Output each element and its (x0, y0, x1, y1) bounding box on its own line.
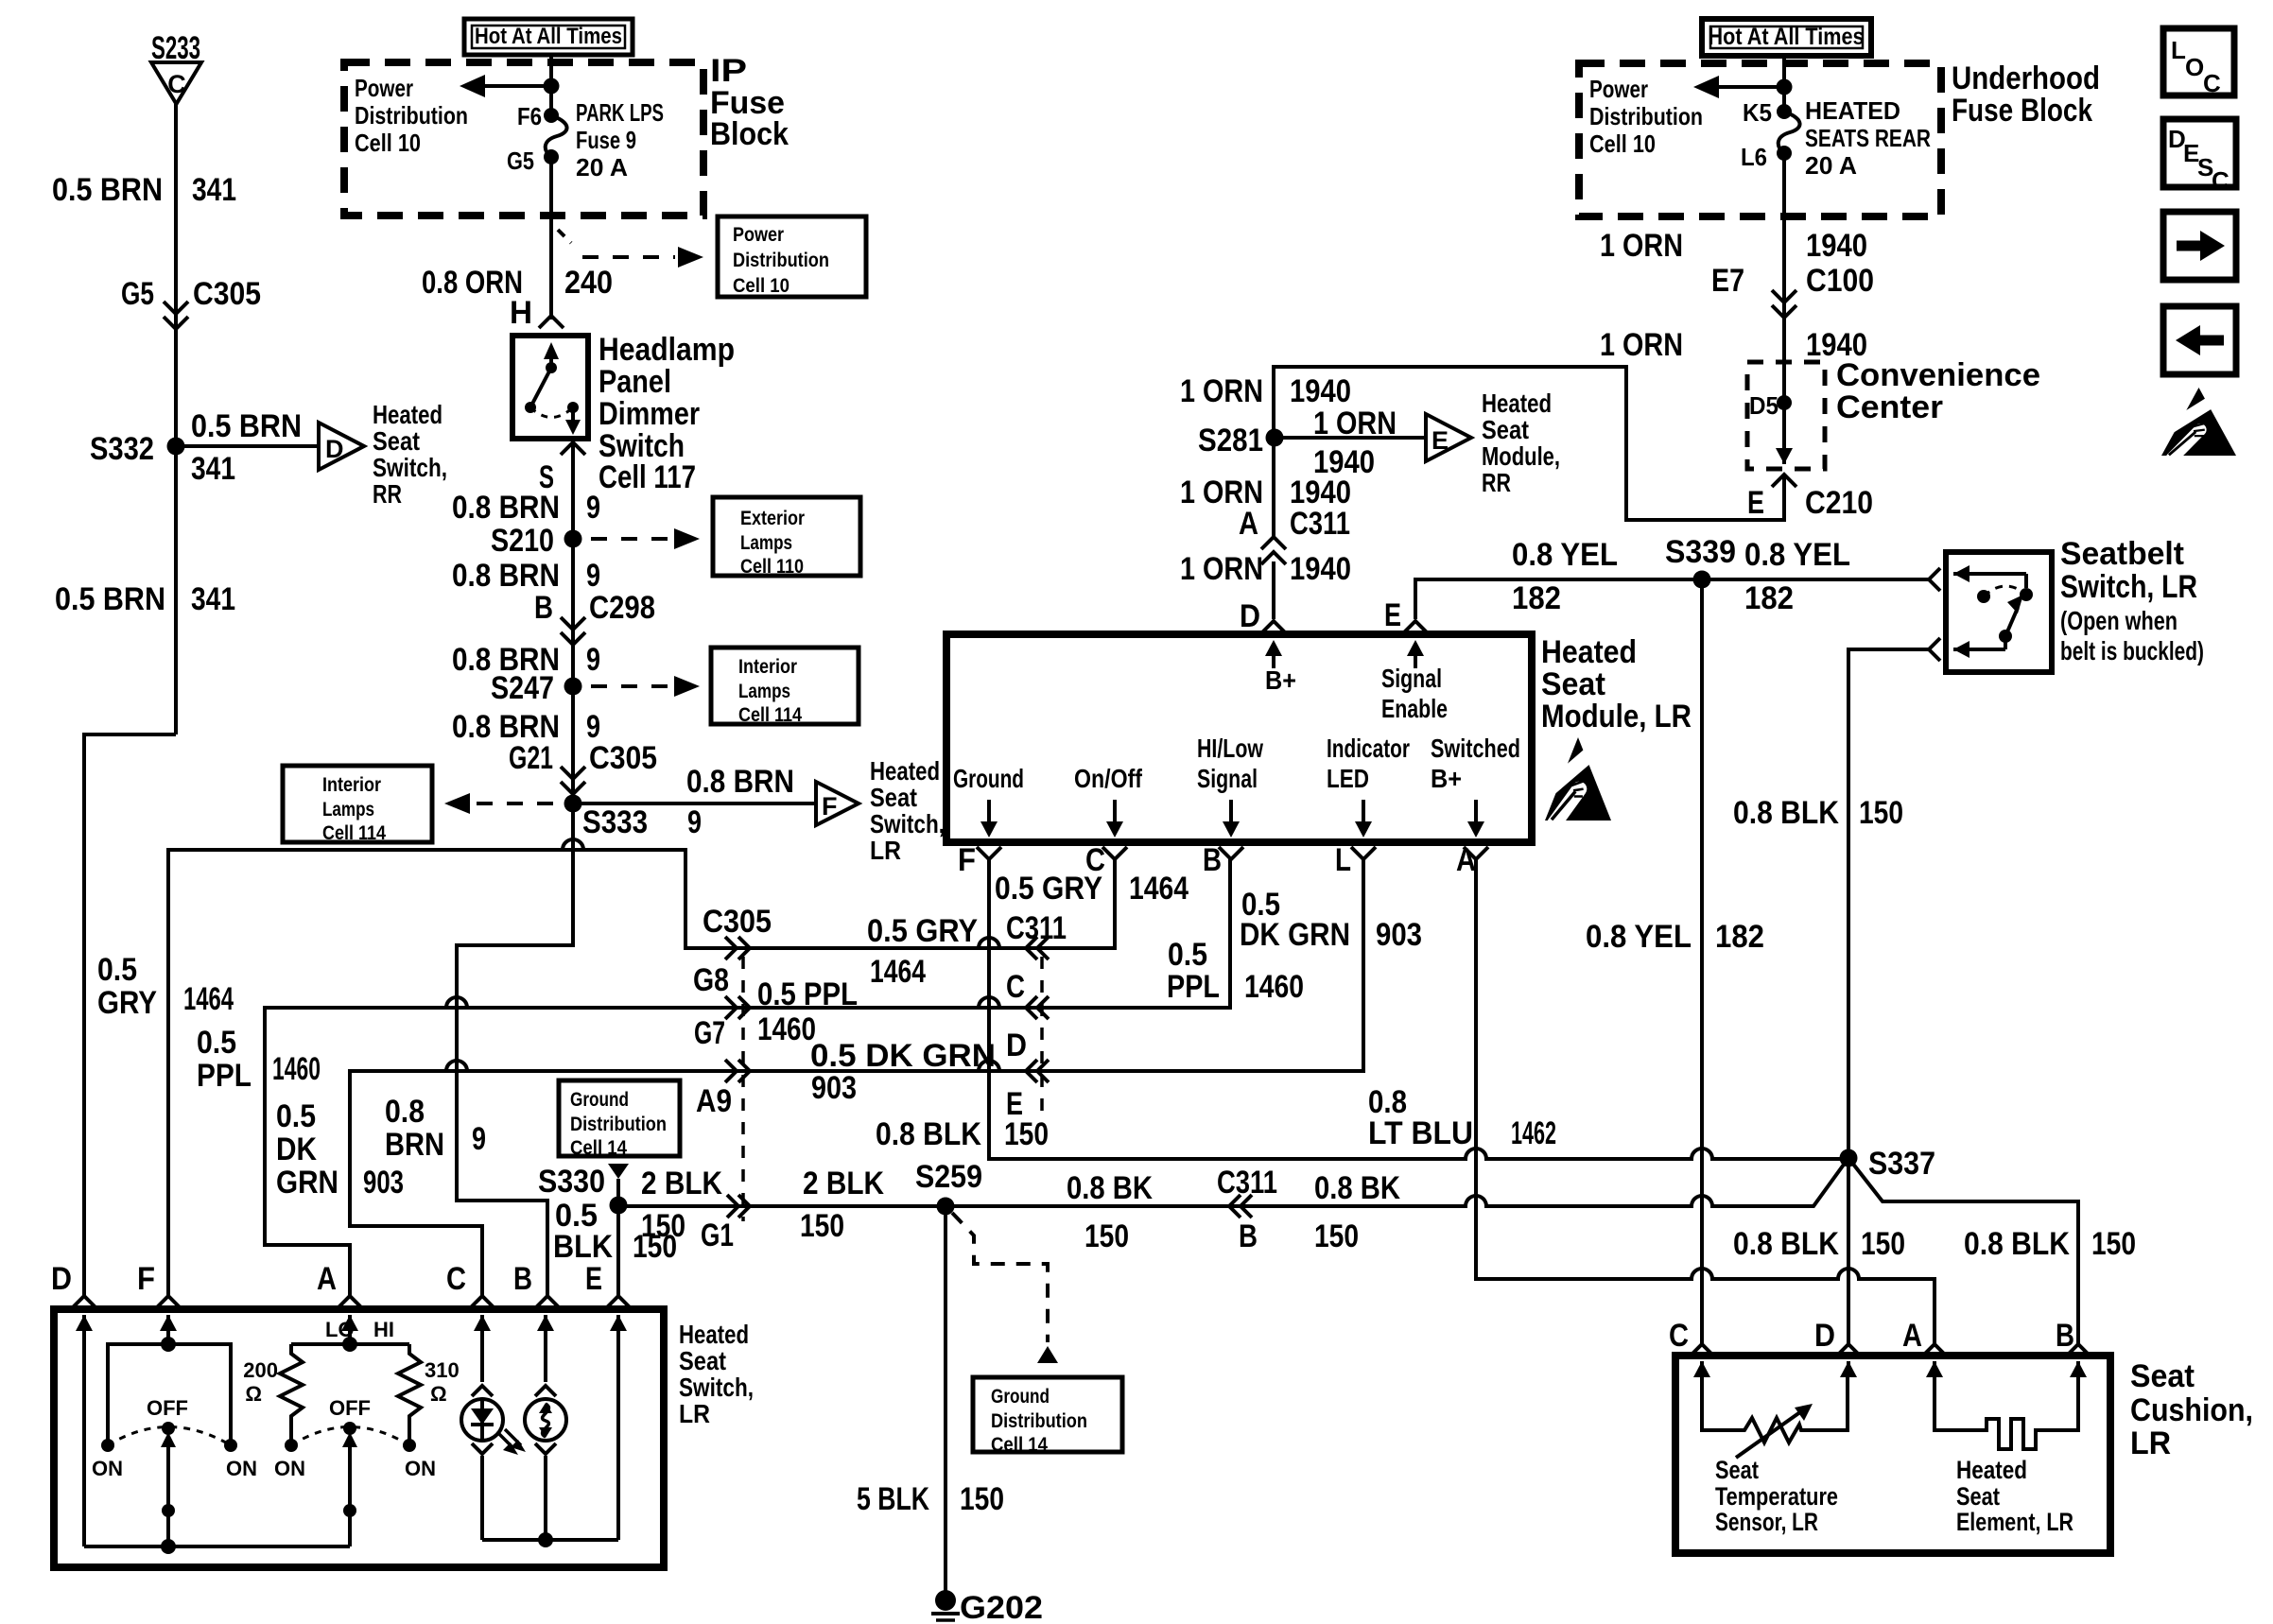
wire 0.5 BLK 150 S330 to switch pin E (616, 1205, 620, 1297)
seatbelt switch LR box (1946, 552, 2052, 672)
svg-text:G7: G7 (694, 1015, 725, 1051)
connector triangle E to Heated Seat Module RR (1426, 414, 1471, 461)
svg-text:B+: B+ (1265, 665, 1296, 695)
value label 5 BLK 150 (857, 1481, 1004, 1517)
svg-text:C: C (2203, 69, 2221, 97)
value label 0.5 BLK 150 (pin E wire) (553, 1198, 677, 1265)
svg-text:Lamps: Lamps (322, 799, 374, 821)
svg-text:B: B (2056, 1318, 2074, 1354)
wire 1 ORN 1940 S281 riser and top run (1274, 367, 1784, 619)
svg-text:150: 150 (1084, 1218, 1129, 1254)
connector chevron below dimmer switch (561, 442, 585, 455)
svg-text:Switch,: Switch, (679, 1373, 754, 1402)
svg-text:150: 150 (1004, 1116, 1049, 1152)
svg-text:HI: HI (373, 1318, 394, 1341)
reference box Ground Distribution Cell 14 (S259) (973, 1377, 1122, 1456)
svg-text:150: 150 (1859, 795, 1903, 831)
svg-text:0.8 BLK: 0.8 BLK (1964, 1226, 2070, 1262)
hi-lo resistor bracket (291, 1342, 409, 1346)
dashed reference branch to Power Distribution Cell 10 (558, 230, 703, 268)
svg-text:ON: ON (92, 1457, 123, 1480)
svg-text:Element, LR: Element, LR (1956, 1508, 2073, 1536)
connector C100 inline chevrons (1772, 290, 1796, 318)
value label 0.8 BLK 150 (seatbelt wire) (1733, 795, 1903, 831)
wire from Hot At All Times into IP fuse block (549, 55, 553, 115)
svg-text:D: D (1814, 1318, 1835, 1354)
seatbelt switch pin chevron (top) (1929, 568, 1940, 591)
svg-text:Cell 114: Cell 114 (738, 704, 802, 726)
svg-text:Fuse 9: Fuse 9 (576, 126, 636, 154)
connector C305 label (703, 904, 772, 940)
svg-text:Switch,: Switch, (870, 809, 945, 838)
svg-text:Ω: Ω (245, 1382, 262, 1406)
svg-text:0.8 YEL: 0.8 YEL (1512, 537, 1618, 573)
splice S337 label (1868, 1146, 1935, 1182)
svg-text:150: 150 (2091, 1226, 2136, 1262)
svg-text:Dimmer: Dimmer (599, 396, 700, 432)
module pin D label (1240, 598, 1260, 634)
connector C311 crossing chevrons (row B) (1229, 1195, 1252, 1218)
svg-text:Ground: Ground (991, 1386, 1050, 1408)
wire 0.5 BRN 341 from S332 to triangle D (176, 444, 319, 448)
svg-text:G202: G202 (960, 1590, 1043, 1624)
wire 0.5 PPL 1460 module pin B to switch pin A (265, 859, 1230, 1297)
svg-text:Cell 10: Cell 10 (733, 275, 789, 297)
terminal D5 label and dot (1749, 391, 1792, 420)
svg-text:150: 150 (960, 1481, 1004, 1517)
value label 0.8 BRN 9 (above S210) (452, 490, 600, 526)
connector C311 crossing chevrons (row C) (1026, 996, 1049, 1019)
fuse HEATED SEATS REAR element (1778, 112, 1800, 153)
splice S333 junction dot (564, 795, 582, 813)
wire 0.8 ORN 240 from fuse down (549, 157, 553, 320)
svg-text:IP: IP (710, 53, 747, 89)
svg-text:341: 341 (191, 451, 235, 487)
wire 0.5 BRN 341 jog to switch pin D (84, 734, 176, 1297)
svg-text:Center: Center (1836, 389, 1943, 425)
cushion pin B chevron and label (2056, 1318, 2091, 1356)
switch pin F internal arrow (160, 1315, 177, 1344)
hi-lo switch wiper arrow (342, 1432, 357, 1546)
svg-text:LT BLU: LT BLU (1368, 1115, 1473, 1151)
svg-text:182: 182 (1744, 580, 1794, 616)
svg-text:D: D (51, 1261, 72, 1297)
wire 0.8 BLK 150 seatbelt switch to S337 (1848, 649, 1929, 1152)
svg-text:C100: C100 (1806, 263, 1874, 299)
svg-text:On/Off: On/Off (1074, 764, 1143, 793)
label Heated Seat Switch RR (373, 400, 447, 509)
svg-text:Headlamp: Headlamp (599, 332, 735, 368)
splice S330 junction dot (610, 1197, 628, 1215)
legend right-arrow box (2163, 212, 2236, 280)
on/off switch contacts (101, 1422, 237, 1452)
svg-text:0.8 YEL: 0.8 YEL (1744, 537, 1850, 573)
svg-text:GRY: GRY (97, 985, 157, 1021)
value label 0.8 BRN 9 (above S247) (452, 642, 600, 678)
svg-text:A: A (317, 1261, 337, 1297)
label Heated Seat Switch LR (triangle F) (870, 756, 945, 865)
svg-text:C: C (446, 1261, 466, 1297)
value label 0.8 YEL 182 (left of S339) (1512, 537, 1618, 616)
splice S210 label (491, 523, 554, 559)
svg-text:B+: B+ (1431, 764, 1462, 793)
svg-text:A: A (1902, 1318, 1922, 1354)
label Seatbelt Switch LR (2060, 536, 2204, 665)
wire 0.5 DK GRN 903 module pin L to switch pin C (350, 859, 1363, 1297)
svg-text:G1: G1 (701, 1218, 734, 1253)
connector C305 crossing chevrons at G8 (725, 937, 750, 959)
svg-text:Cell 10: Cell 10 (1589, 130, 1656, 158)
label Underhood Fuse Block (1952, 60, 2100, 129)
ground feed arrow from cell 14 to S330 (608, 1164, 629, 1205)
svg-text:S210: S210 (491, 523, 554, 559)
svg-text:C: C (167, 70, 186, 98)
svg-text:Heated: Heated (1482, 389, 1552, 418)
svg-text:Cushion,: Cushion, (2130, 1392, 2253, 1428)
svg-text:1464: 1464 (870, 954, 926, 990)
heated seat element LR (1935, 1377, 2078, 1449)
wire 0.5 BRN 341 from S332 down (174, 446, 178, 734)
svg-text:2 BLK: 2 BLK (641, 1166, 722, 1201)
dashed reference arrow to Interior Lamps Cell 114 (left) (444, 793, 560, 814)
label box Hot At All Times (underhood) (1702, 19, 1871, 56)
on/off switch bracket (108, 1344, 231, 1445)
legend left-arrow box (2163, 306, 2236, 374)
svg-text:C305: C305 (703, 904, 772, 940)
svg-text:Switched: Switched (1431, 734, 1520, 763)
svg-text:(Open when: (Open when (2060, 606, 2178, 635)
label Heated Seat Module RR (1482, 389, 1560, 497)
splice S337 junction dot (1840, 1149, 1858, 1167)
hi-lo switch feed (341, 1315, 358, 1344)
connector C305 pin G1 label (701, 1218, 734, 1253)
label ON (hi-lo right) (405, 1457, 436, 1480)
value label 0.5 PPL 1460 (right of C305) (757, 976, 858, 1047)
svg-text:K5: K5 (1743, 98, 1772, 127)
connector chevron at dimmer switch pin H (539, 316, 564, 328)
svg-text:H: H (510, 295, 532, 331)
svg-text:1460: 1460 (1244, 969, 1304, 1005)
svg-text:Module,: Module, (1482, 441, 1560, 471)
value label 0.5 BRN / 341 at S332 branch (191, 408, 302, 487)
value label 1 ORN 1940 (above C100) (1600, 228, 1867, 264)
label Seat Temperature Sensor LR (1715, 1456, 1838, 1536)
svg-text:F: F (958, 842, 976, 878)
svg-text:RR: RR (1482, 468, 1511, 497)
value label 0.5 GRY 1464 (right of C305) (867, 913, 978, 990)
connector C311 pin C label (1006, 969, 1025, 1005)
svg-text:Seat: Seat (679, 1346, 726, 1375)
connector C210 chevron (1772, 475, 1796, 487)
cushion pin A chevron and label (1902, 1318, 1947, 1356)
svg-text:Distribution: Distribution (1589, 102, 1703, 130)
svg-text:1940: 1940 (1290, 551, 1351, 587)
svg-text:Hot At All Times: Hot At All Times (475, 24, 622, 49)
legend LOC box (2163, 28, 2234, 97)
label box Hot At All Times (IP) (464, 19, 633, 55)
seat temperature sensor LR (variable resistor) (1702, 1377, 1848, 1458)
label ON (left) (92, 1457, 123, 1480)
svg-text:1 ORN: 1 ORN (1180, 475, 1263, 510)
svg-text:E: E (1431, 426, 1449, 455)
label LO (325, 1318, 355, 1341)
svg-text:C: C (1006, 969, 1025, 1005)
svg-text:GRN: GRN (276, 1165, 338, 1201)
svg-text:Cell 117: Cell 117 (599, 459, 696, 495)
svg-text:OFF: OFF (147, 1396, 188, 1420)
svg-text:Module, LR: Module, LR (1541, 699, 1692, 734)
svg-text:150: 150 (1861, 1226, 1905, 1262)
cushion pin C internal arrow (1693, 1361, 1710, 1377)
svg-text:Indicator: Indicator (1327, 734, 1410, 763)
value label 0.8 BRN 9 at S333 branch (686, 764, 794, 840)
dimmer switch internals (525, 342, 581, 435)
connector C305 inline chevrons on left wire (164, 302, 188, 329)
cushion pin B internal arrow (2070, 1361, 2087, 1377)
module pin F internal arrow (980, 800, 998, 838)
svg-text:G8: G8 (693, 962, 729, 998)
svg-text:1 ORN: 1 ORN (1180, 551, 1263, 587)
fuse HEATED SEATS REAR terminal L6 (1741, 143, 1792, 171)
svg-text:SEATS REAR: SEATS REAR (1805, 124, 1931, 152)
reference box Ground Distribution Cell 14 (S330) (559, 1080, 680, 1159)
svg-text:0.5 BRN: 0.5 BRN (55, 581, 165, 617)
value label 0.8 BLK 150 (cushion pin D wire) (1733, 1226, 1905, 1262)
value label 0.8 BRN 9 (below S210) (452, 558, 600, 594)
connector S233 (triangle C) label (151, 30, 200, 66)
svg-text:9: 9 (687, 804, 702, 840)
module pin E chevron (1403, 621, 1428, 633)
splice S339 junction dot (1693, 571, 1711, 589)
svg-text:1940: 1940 (1313, 444, 1375, 480)
svg-text:Power: Power (355, 74, 413, 102)
svg-text:A: A (1239, 506, 1258, 542)
label HI (373, 1318, 394, 1341)
svg-text:S337: S337 (1868, 1146, 1935, 1182)
connector triangle F to Heated Seat Switch LR (816, 782, 859, 825)
splice S210 junction dot (564, 530, 582, 548)
svg-text:Heated: Heated (1956, 1456, 2027, 1484)
dashed reference route S259 to Ground Distribution Cell 14 (952, 1213, 1058, 1363)
svg-text:PPL: PPL (197, 1058, 252, 1094)
reference box Interior Lamps Cell 114 (left) (283, 766, 432, 844)
svg-text:C210: C210 (1805, 485, 1873, 521)
value label 0.8 BK 150 (left of C311 B) (1067, 1170, 1153, 1254)
wire 1 ORN 1940 S281 to triangle E (1275, 436, 1426, 440)
value label 0.8 BK 150 (right of C311 B) (1314, 1170, 1400, 1254)
svg-text:BLK: BLK (553, 1229, 613, 1265)
wire 0.8 BLK 150 S337 to cushion pin B (1848, 1158, 2078, 1346)
svg-text:9: 9 (586, 490, 600, 526)
value label 0.5 GRY 1464 (module pin C wire) (995, 871, 1189, 907)
svg-text:LED: LED (1327, 764, 1369, 793)
svg-text:Switch,: Switch, (373, 453, 447, 482)
module pin A internal arrow (1467, 800, 1484, 838)
switch pin F chevron and label (137, 1261, 181, 1308)
seatbelt switch internals (1953, 565, 2033, 658)
splice S333 label (582, 804, 648, 840)
connector C305 pin G7 label (694, 1015, 725, 1051)
module pin E label (1384, 597, 1401, 633)
svg-text:0.8 BRN: 0.8 BRN (452, 558, 560, 594)
svg-text:Underhood: Underhood (1952, 60, 2100, 96)
value label 0.8 BLK 150 (module pin F wire) (876, 1116, 1049, 1152)
hi-lo switch contacts (285, 1422, 416, 1452)
value label 0.8 YEL 182 (S339 riser) (1586, 919, 1764, 955)
value label 0.8 LT BLU 1462 (1368, 1084, 1556, 1151)
connector C311 crossing chevrons (row D) (1026, 1060, 1049, 1082)
svg-text:1 ORN: 1 ORN (1313, 406, 1397, 441)
svg-text:Power: Power (733, 224, 784, 246)
wire 0.8 BRN 9 dimmer to S210 (571, 439, 575, 539)
wire 1 ORN 1940 C100 to convenience center (1782, 295, 1786, 403)
legend ESD symbol (2160, 388, 2236, 458)
connector C311 pin D label (1006, 1028, 1027, 1063)
junction dot bus at wiper (161, 1539, 176, 1554)
svg-text:S332: S332 (90, 431, 154, 467)
value label 1 ORN / 1940 at S281 branch (1313, 406, 1397, 480)
svg-text:0.5: 0.5 (276, 1098, 316, 1134)
value label 1 ORN 1940 (below C311 A) (1180, 551, 1351, 587)
svg-text:S333: S333 (582, 804, 648, 840)
seatbelt switch pin chevron (bottom) (1929, 638, 1940, 661)
module pin B internal arrow (1223, 800, 1240, 838)
svg-text:HI/Low: HI/Low (1197, 734, 1263, 763)
svg-text:0.8 BLK: 0.8 BLK (1733, 1226, 1839, 1262)
value label 1 ORN 1940 (below S281) (1180, 475, 1351, 510)
svg-text:1460: 1460 (757, 1011, 816, 1047)
svg-text:1460: 1460 (272, 1051, 321, 1087)
connector C311 pin E label (1006, 1086, 1023, 1122)
splice S339 label (1665, 534, 1736, 570)
svg-text:150: 150 (641, 1208, 685, 1244)
label Heated Seat Module LR (1541, 634, 1692, 734)
value label 0.5 BRN 341 (upper left) (52, 172, 236, 208)
seat cushion LR box (1675, 1356, 2110, 1553)
connector S233 triangle C symbol (151, 62, 201, 104)
module pin L chevron and label (1335, 842, 1376, 878)
svg-text:ON: ON (226, 1457, 257, 1480)
IP fuse block dashed box (344, 62, 703, 216)
svg-text:S339: S339 (1665, 534, 1736, 570)
label Heated Seat Switch LR (box title) (679, 1320, 754, 1428)
svg-text:S281: S281 (1198, 423, 1263, 458)
svg-text:PARK LPS: PARK LPS (576, 98, 664, 127)
cushion pin C chevron and label (1669, 1318, 1714, 1356)
svg-text:belt is buckled): belt is buckled) (2060, 636, 2204, 665)
svg-text:1 ORN: 1 ORN (1600, 327, 1683, 363)
value label 1 ORN 1940 (above S281) (1180, 373, 1351, 409)
module pin E internal arrow and Signal Enable label (1381, 640, 1448, 723)
svg-text:Distribution: Distribution (355, 101, 468, 130)
headlamp panel dimmer switch box (512, 336, 588, 439)
svg-text:20 A: 20 A (1805, 151, 1857, 180)
svg-text:Seat: Seat (1482, 415, 1529, 444)
legend DESC box (2163, 119, 2236, 195)
value label 0.5 DK GRN 903 (module pin L wire) (1240, 887, 1422, 953)
svg-text:HEATED: HEATED (1805, 96, 1900, 125)
value label 0.5 DK GRN 903 (right of C305) (810, 1038, 996, 1106)
svg-text:0.8 YEL: 0.8 YEL (1586, 919, 1692, 955)
svg-text:DK GRN: DK GRN (1240, 917, 1350, 953)
pin H label of dimmer switch (510, 295, 532, 331)
value label 0.8 YEL 182 (right of S339) (1744, 537, 1850, 616)
splice S281 junction dot (1266, 429, 1284, 447)
cushion pin D internal arrow (1840, 1361, 1857, 1377)
svg-text:1940: 1940 (1290, 373, 1351, 409)
label Seat Cushion LR (2130, 1358, 2253, 1461)
svg-text:LR: LR (679, 1399, 710, 1428)
svg-text:Lamps: Lamps (738, 681, 790, 702)
wire 0.8 BRN 9 S210 to C298 (571, 539, 575, 624)
module pin D internal arrow and B+ label (1265, 640, 1296, 695)
svg-text:S247: S247 (491, 670, 554, 706)
wire 0.8 BRN 9 C305 to S333 (571, 773, 575, 803)
svg-text:A: A (1456, 842, 1476, 878)
svg-text:0.5 BRN: 0.5 BRN (52, 172, 163, 208)
svg-text:L: L (2171, 36, 2186, 64)
svg-text:1464: 1464 (1129, 871, 1189, 907)
on/off switch wiper arrow (161, 1432, 176, 1546)
value label 0.5 PPL 1460 (switch pin A wire) (197, 1025, 321, 1094)
svg-text:Seat: Seat (1715, 1456, 1759, 1484)
svg-text:Interior: Interior (322, 774, 381, 796)
svg-text:2 BLK: 2 BLK (803, 1166, 884, 1201)
svg-text:182: 182 (1715, 919, 1764, 955)
svg-text:1940: 1940 (1806, 228, 1867, 264)
svg-text:L6: L6 (1741, 143, 1767, 171)
wire 1 ORN 1940 C210 down to S281 run (1782, 475, 1786, 522)
svg-text:C: C (1085, 842, 1105, 878)
wire 0.8 BLK 150 module pin F to S337 (989, 859, 1843, 1159)
module function label Ground (953, 764, 1024, 793)
connector C305 crossing chevrons at G1 (727, 1195, 750, 1218)
svg-text:Cell 14: Cell 14 (991, 1434, 1048, 1456)
junction dot pin F bracket (161, 1337, 176, 1352)
cushion pin D chevron and label (1814, 1318, 1861, 1356)
svg-text:200: 200 (243, 1358, 278, 1382)
connector C311 label at row B (1217, 1165, 1277, 1254)
svg-text:Seat: Seat (1541, 666, 1605, 702)
svg-text:0.8: 0.8 (385, 1094, 425, 1130)
splice S281 label (1198, 423, 1263, 458)
svg-text:C: C (1669, 1318, 1689, 1354)
svg-text:G5: G5 (121, 276, 154, 312)
svg-text:Exterior: Exterior (740, 508, 805, 529)
svg-text:C: C (2212, 166, 2230, 195)
svg-text:ON: ON (274, 1457, 305, 1480)
pin S label (539, 459, 554, 495)
label ON (hi-lo left) (274, 1457, 305, 1480)
svg-text:G5: G5 (507, 147, 534, 175)
splice S332 label (90, 431, 154, 467)
svg-text:D5: D5 (1749, 391, 1778, 420)
switch pin A chevron and label (317, 1261, 362, 1308)
wire 0.8 BRN 9 from S333 to triangle F (573, 802, 816, 805)
arrow to Power Distribution (internal) (460, 75, 551, 97)
svg-text:Temperature: Temperature (1715, 1482, 1838, 1511)
svg-text:0.8 BRN: 0.8 BRN (452, 490, 560, 526)
svg-text:Seat: Seat (1956, 1482, 2000, 1511)
indicator LED symbol (461, 1315, 526, 1540)
wire and arrow inside convenience center (1776, 403, 1793, 464)
svg-text:Heated: Heated (373, 400, 442, 429)
connector C311 dashed line (1040, 957, 1044, 1115)
dashed reference arrow to Exterior Lamps (591, 528, 700, 549)
convenience center dashed box (1747, 362, 1825, 469)
reference box Interior Lamps Cell 114 (711, 648, 859, 726)
connector C305 pin A9 label (696, 1083, 732, 1119)
